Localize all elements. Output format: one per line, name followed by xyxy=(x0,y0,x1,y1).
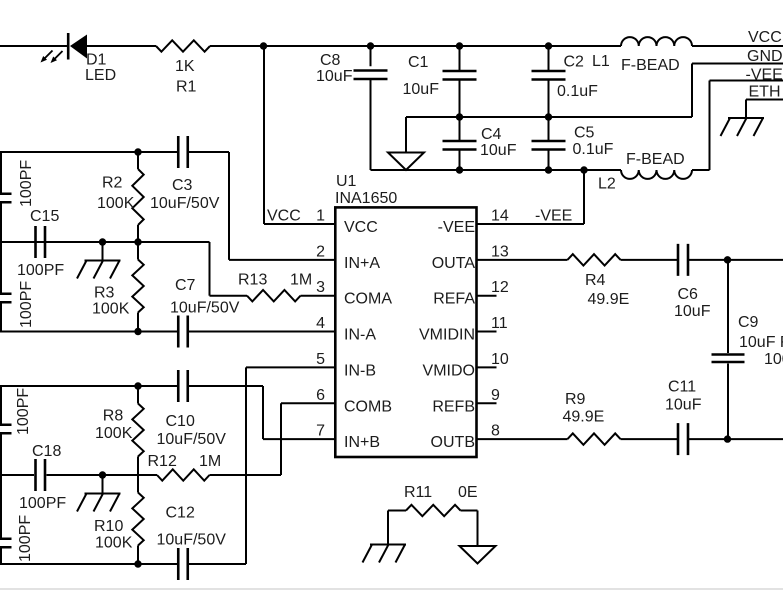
svg-text:C7: C7 xyxy=(175,277,196,294)
svg-text:10uF/50V: 10uF/50V xyxy=(157,532,227,549)
svg-text:6: 6 xyxy=(316,387,325,404)
svg-text:ETH: ETH xyxy=(749,84,781,101)
svg-text:C5: C5 xyxy=(574,125,595,142)
svg-text:OUTB: OUTB xyxy=(431,434,475,451)
svg-text:R11: R11 xyxy=(404,484,432,501)
svg-text:-VEE: -VEE xyxy=(746,67,783,84)
svg-text:100K: 100K xyxy=(95,425,133,442)
svg-text:0.1uF: 0.1uF xyxy=(573,141,614,158)
svg-text:R1: R1 xyxy=(176,79,197,96)
svg-text:1M: 1M xyxy=(199,453,221,470)
svg-text:100PF: 100PF xyxy=(18,160,35,207)
svg-text:100PF: 100PF xyxy=(19,495,66,512)
svg-text:VCC: VCC xyxy=(748,29,782,46)
svg-text:R12: R12 xyxy=(148,453,177,470)
svg-text:4: 4 xyxy=(316,315,325,332)
svg-text:10uF/50V: 10uF/50V xyxy=(170,300,240,317)
svg-text:10uF: 10uF xyxy=(316,68,353,85)
svg-text:49.9E: 49.9E xyxy=(588,291,630,308)
svg-text:COMA: COMA xyxy=(344,291,392,308)
svg-text:C4: C4 xyxy=(481,126,502,143)
svg-text:COMB: COMB xyxy=(344,398,392,415)
svg-text:C1: C1 xyxy=(408,54,429,71)
svg-text:100: 100 xyxy=(764,351,783,368)
svg-text:REFB: REFB xyxy=(432,398,475,415)
svg-text:-VEE: -VEE xyxy=(438,219,475,236)
svg-text:IN-A: IN-A xyxy=(344,327,376,344)
svg-text:100K: 100K xyxy=(92,301,130,318)
svg-text:R3: R3 xyxy=(94,285,115,302)
svg-text:10: 10 xyxy=(491,351,509,368)
svg-text:VCC: VCC xyxy=(267,208,301,225)
svg-text:C11: C11 xyxy=(668,379,696,396)
svg-text:49.9E: 49.9E xyxy=(563,409,605,426)
svg-text:R4: R4 xyxy=(585,272,606,289)
svg-text:R8: R8 xyxy=(103,408,124,425)
svg-text:1: 1 xyxy=(316,208,325,225)
svg-text:R10: R10 xyxy=(94,518,123,535)
svg-text:14: 14 xyxy=(491,208,509,225)
svg-text:100K: 100K xyxy=(97,195,135,212)
svg-text:10uF: 10uF xyxy=(665,397,702,414)
svg-text:5: 5 xyxy=(316,351,325,368)
svg-text:10uF: 10uF xyxy=(480,142,517,159)
svg-text:L2: L2 xyxy=(598,176,616,193)
svg-text:R2: R2 xyxy=(102,175,123,192)
svg-text:GND: GND xyxy=(747,48,783,65)
svg-text:VCC: VCC xyxy=(344,219,378,236)
svg-text:C10: C10 xyxy=(166,413,195,430)
svg-text:10uF: 10uF xyxy=(674,303,711,320)
svg-text:D1: D1 xyxy=(86,52,107,69)
svg-text:F-BEAD: F-BEAD xyxy=(626,151,685,168)
svg-text:10uF/50V: 10uF/50V xyxy=(150,195,220,212)
svg-text:0E: 0E xyxy=(458,484,478,501)
svg-text:100PF: 100PF xyxy=(18,281,35,328)
svg-text:IN+A: IN+A xyxy=(344,255,380,272)
svg-text:LED: LED xyxy=(85,67,116,84)
svg-text:C18: C18 xyxy=(32,443,61,460)
svg-text:-VEE: -VEE xyxy=(535,208,572,225)
svg-text:C9: C9 xyxy=(738,314,759,331)
svg-text:0.1uF: 0.1uF xyxy=(557,83,598,100)
svg-text:1K: 1K xyxy=(175,58,195,75)
svg-text:IN-B: IN-B xyxy=(344,362,376,379)
svg-text:3: 3 xyxy=(316,279,325,296)
svg-text:1M: 1M xyxy=(290,272,312,289)
svg-text:C6: C6 xyxy=(678,286,699,303)
svg-text:9: 9 xyxy=(491,387,500,404)
svg-text:10uF R: 10uF R xyxy=(739,334,783,351)
svg-text:12: 12 xyxy=(491,279,509,296)
svg-text:INA1650: INA1650 xyxy=(335,190,397,207)
svg-text:U1: U1 xyxy=(336,173,357,190)
svg-text:OUTA: OUTA xyxy=(432,255,476,272)
svg-text:7: 7 xyxy=(316,423,325,440)
svg-text:100K: 100K xyxy=(95,535,133,552)
svg-text:100PF: 100PF xyxy=(15,388,32,435)
svg-text:VMIDIN: VMIDIN xyxy=(419,327,475,344)
svg-text:C15: C15 xyxy=(30,208,59,225)
svg-text:C3: C3 xyxy=(172,177,193,194)
svg-text:F-BEAD: F-BEAD xyxy=(621,57,680,74)
svg-text:R9: R9 xyxy=(565,391,586,408)
svg-text:R13: R13 xyxy=(238,272,267,289)
svg-text:13: 13 xyxy=(491,243,509,260)
svg-text:C2: C2 xyxy=(564,54,585,71)
svg-text:L1: L1 xyxy=(592,53,610,70)
svg-text:10uF/50V: 10uF/50V xyxy=(157,431,227,448)
svg-text:VMIDO: VMIDO xyxy=(423,362,475,379)
svg-text:IN+B: IN+B xyxy=(344,434,380,451)
svg-text:100PF: 100PF xyxy=(17,515,34,562)
svg-text:C8: C8 xyxy=(320,52,341,69)
svg-text:11: 11 xyxy=(491,315,508,332)
svg-text:2: 2 xyxy=(316,243,325,260)
svg-text:10uF: 10uF xyxy=(403,81,440,98)
svg-text:8: 8 xyxy=(491,423,500,440)
svg-text:C12: C12 xyxy=(166,505,195,522)
svg-text:REFA: REFA xyxy=(433,291,475,308)
svg-text:100PF: 100PF xyxy=(17,262,64,279)
